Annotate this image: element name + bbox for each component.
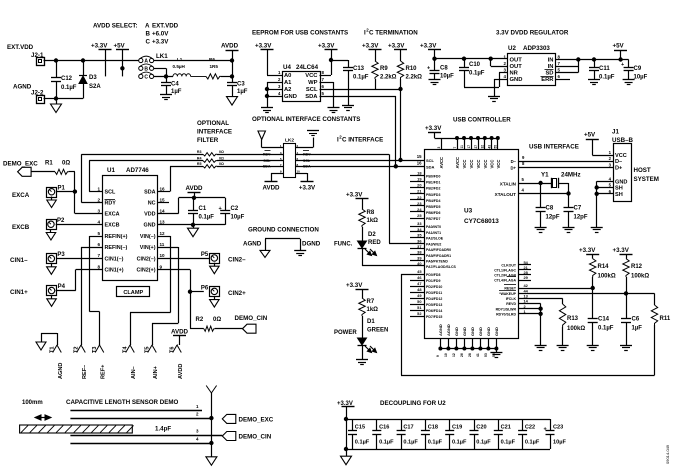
svg-text:100kΩ: 100kΩ [598, 274, 616, 280]
svg-text:AVDD: AVDD [171, 329, 189, 336]
svg-text:100kΩ: 100kΩ [631, 274, 649, 280]
svg-text:B: B [146, 31, 151, 38]
svg-text:GROUND CONNECTION: GROUND CONNECTION [248, 227, 319, 234]
svg-text:R3: R3 [197, 150, 202, 154]
svg-text:CIN1(+): CIN1(+) [105, 268, 124, 274]
svg-text:2.2kΩ: 2.2kΩ [406, 75, 423, 81]
svg-text:+: + [427, 66, 430, 72]
svg-text:12pF: 12pF [574, 215, 588, 221]
svg-text:P4: P4 [58, 284, 66, 290]
svg-text:J1: J1 [612, 129, 619, 136]
svg-text:4: 4 [97, 219, 100, 224]
svg-text:C14: C14 [598, 317, 610, 323]
svg-text:37: 37 [417, 244, 421, 249]
svg-text:GND: GND [284, 94, 297, 100]
svg-text:+5V: +5V [584, 132, 596, 139]
svg-text:C8: C8 [546, 206, 554, 212]
svg-text:RDY0/SLRD: RDY0/SLRD [496, 313, 516, 317]
svg-text:+6.0V: +6.0V [152, 31, 169, 38]
svg-text:AIN+: AIN+ [153, 365, 159, 379]
svg-text:CY7C68013: CY7C68013 [464, 218, 499, 225]
svg-text:D2: D2 [368, 232, 376, 238]
svg-text:R12: R12 [631, 264, 643, 270]
svg-text:12: 12 [160, 231, 166, 236]
svg-text:OPTIONAL INTERFACE CONSTANTS: OPTIONAL INTERFACE CONSTANTS [252, 116, 360, 123]
svg-text:24MHz: 24MHz [561, 172, 581, 179]
svg-text:+: + [219, 206, 222, 212]
svg-text:AVDD SELECT:: AVDD SELECT: [93, 23, 138, 30]
svg-text:C6: C6 [632, 317, 640, 323]
svg-text:POWER: POWER [334, 330, 357, 336]
svg-text:C13: C13 [353, 66, 365, 72]
svg-text:1µF: 1µF [237, 89, 248, 95]
svg-text:CTL4/FLAGA: CTL4/FLAGA [494, 279, 516, 283]
svg-text:C12: C12 [61, 76, 73, 82]
svg-text:C7: C7 [574, 206, 582, 212]
svg-text:VCC: VCC [305, 73, 318, 79]
svg-text:0.1µF: 0.1µF [403, 440, 418, 446]
svg-text:9: 9 [436, 355, 440, 357]
svg-text:100mm: 100mm [22, 400, 43, 406]
svg-text:ERR: ERR [541, 77, 554, 83]
svg-text:GND: GND [462, 327, 467, 336]
svg-text:0Ω: 0Ω [219, 156, 224, 160]
svg-text:0.1µF: 0.1µF [599, 75, 615, 81]
svg-text:FILTER: FILTER [197, 137, 219, 144]
svg-text:SDA: SDA [263, 165, 271, 169]
svg-text:0.1µF: 0.1µF [353, 75, 369, 81]
svg-text:0.1µF: 0.1µF [61, 85, 77, 91]
svg-text:7: 7 [97, 253, 100, 258]
svg-text:*WAKEUP: *WAKEUP [499, 292, 516, 296]
svg-text:CIN1+: CIN1+ [10, 289, 28, 296]
svg-text:OPTIONAL: OPTIONAL [197, 120, 229, 127]
svg-text:R2: R2 [196, 317, 204, 323]
svg-text:0.1µF: 0.1µF [598, 326, 614, 332]
svg-text:PA3/WU2: PA3/WU2 [426, 242, 441, 246]
svg-text:ADP3303: ADP3303 [523, 45, 550, 52]
svg-text:14: 14 [160, 208, 166, 213]
svg-text:1kΩ: 1kΩ [367, 307, 379, 313]
svg-text:PB1/FD1: PB1/FD1 [426, 181, 440, 185]
svg-text:R8: R8 [367, 210, 375, 216]
svg-text:16: 16 [417, 160, 422, 165]
svg-text:D1: D1 [367, 319, 375, 325]
svg-text:CIN2(–): CIN2(–) [137, 257, 156, 263]
svg-text:P6: P6 [201, 285, 209, 291]
svg-text:C8: C8 [440, 66, 448, 72]
svg-text:R9: R9 [380, 66, 388, 72]
svg-text:FUNC.: FUNC. [334, 242, 353, 248]
svg-text:R14: R14 [598, 264, 610, 270]
svg-text:100kΩ: 100kΩ [567, 326, 585, 332]
svg-text:1kΩ: 1kΩ [367, 218, 379, 224]
svg-text:RDY: RDY [263, 153, 271, 157]
svg-text:VCC: VCC [483, 160, 488, 169]
svg-text:D+: D+ [615, 166, 623, 172]
svg-text:EXCA: EXCA [12, 192, 30, 199]
svg-text:R13: R13 [567, 316, 579, 322]
svg-text:REFIN(–): REFIN(–) [105, 245, 128, 251]
svg-text:P3: P3 [57, 252, 65, 258]
svg-text:AGND: AGND [243, 241, 262, 248]
svg-text:XTALOUT: XTALOUT [495, 192, 517, 197]
svg-text:1: 1 [97, 186, 100, 191]
svg-text:PD2/FD10: PD2/FD10 [426, 285, 442, 289]
svg-text:0Ω: 0Ω [219, 162, 224, 166]
svg-text:U1: U1 [107, 167, 115, 174]
svg-text:41: 41 [476, 353, 480, 357]
svg-text:+3.3V: +3.3V [388, 43, 405, 50]
svg-text:C16: C16 [379, 425, 389, 431]
svg-text:AVDD: AVDD [185, 185, 203, 192]
svg-text:12: 12 [452, 353, 456, 357]
svg-text:C18: C18 [428, 425, 438, 431]
svg-text:GND: GND [494, 327, 499, 336]
svg-text:28: 28 [468, 353, 472, 357]
svg-text:VCC: VCC [462, 160, 467, 169]
svg-text:09014-049: 09014-049 [665, 444, 670, 464]
svg-text:AVDD: AVDD [221, 43, 239, 50]
svg-text:R6: R6 [209, 57, 215, 62]
svg-text:GREEN: GREEN [367, 328, 388, 334]
svg-text:CIN2–: CIN2– [228, 257, 246, 264]
svg-text:WP: WP [308, 80, 317, 86]
svg-text:P1: P1 [58, 185, 66, 191]
svg-text:8: 8 [97, 264, 100, 269]
svg-text:0.1µF: 0.1µF [452, 440, 467, 446]
svg-text:+3.3V: +3.3V [255, 43, 272, 50]
svg-text:DEMO_EXC: DEMO_EXC [239, 416, 274, 423]
svg-text:IFCLK: IFCLK [506, 297, 517, 301]
svg-text:NC: NC [148, 201, 156, 207]
svg-text:CTL1/FLAGC: CTL1/FLAGC [494, 269, 516, 273]
svg-text:+3.3V: +3.3V [152, 39, 169, 46]
svg-text:U4: U4 [283, 64, 291, 71]
svg-text:A: A [145, 23, 150, 30]
svg-text:R4: R4 [197, 156, 202, 160]
svg-text:C1: C1 [199, 206, 207, 212]
svg-text:DEMO_CIN: DEMO_CIN [239, 434, 272, 441]
svg-text:SDA: SDA [144, 190, 155, 196]
svg-text:DEMO_CIN: DEMO_CIN [235, 315, 268, 322]
svg-text:PD6/FD14: PD6/FD14 [426, 309, 442, 313]
svg-text:GND: GND [478, 327, 483, 336]
svg-text:A2: A2 [284, 87, 291, 93]
svg-text:CIN2(+): CIN2(+) [136, 268, 155, 274]
svg-text:12pF: 12pF [546, 215, 560, 221]
svg-text:PA6/PKTEND: PA6/PKTEND [426, 260, 448, 264]
svg-text:10µF: 10µF [553, 440, 566, 446]
svg-text:VIN(–): VIN(–) [140, 234, 156, 240]
svg-text:Y1: Y1 [541, 172, 549, 179]
svg-text:PB6/FD6: PB6/FD6 [426, 211, 440, 215]
svg-text:5: 5 [97, 231, 100, 236]
svg-text:R7: R7 [367, 299, 375, 305]
svg-text:SYSTEM: SYSTEM [634, 176, 659, 183]
svg-text:PD4/FD12: PD4/FD12 [426, 297, 442, 301]
svg-text:CIN1–: CIN1– [10, 257, 28, 264]
svg-text:PB0/FD0: PB0/FD0 [426, 175, 440, 179]
svg-text:D–: D– [615, 159, 622, 165]
svg-text:AVCC: AVCC [439, 157, 444, 169]
svg-text:XTALIN: XTALIN [500, 181, 517, 186]
svg-text:55: 55 [494, 145, 498, 149]
svg-text:+5V: +5V [613, 43, 625, 50]
svg-text:C: C [144, 75, 148, 81]
svg-text:+3.3V: +3.3V [425, 125, 442, 132]
svg-text:A1: A1 [284, 80, 292, 86]
svg-text:SCL: SCL [303, 159, 311, 163]
svg-text:VCC: VCC [490, 160, 495, 169]
svg-text:REF–: REF– [82, 365, 88, 379]
svg-text:R11: R11 [660, 316, 671, 322]
svg-text:43: 43 [487, 145, 491, 149]
svg-text:C2: C2 [231, 206, 239, 212]
svg-text:PD1/FD9: PD1/FD9 [426, 279, 440, 283]
svg-text:SCL: SCL [306, 87, 318, 93]
svg-text:T6: T6 [170, 346, 176, 353]
svg-text:0.5µH: 0.5µH [173, 64, 186, 69]
svg-text:+: + [621, 62, 624, 68]
svg-text:1.4pF: 1.4pF [155, 426, 171, 433]
svg-text:U3: U3 [464, 208, 473, 215]
svg-text:PB2/FD2: PB2/FD2 [426, 187, 440, 191]
svg-text:REVD: REVD [506, 302, 516, 306]
svg-text:C3: C3 [237, 82, 245, 88]
svg-text:C9: C9 [634, 66, 642, 72]
svg-text:GND: GND [454, 327, 459, 336]
svg-text:AGND: AGND [438, 324, 443, 336]
svg-text:EXCB: EXCB [105, 223, 120, 229]
svg-text:GND: GND [486, 327, 491, 336]
svg-text:0Ω: 0Ω [219, 150, 224, 154]
svg-text:PA2/SLOE: PA2/SLOE [426, 237, 444, 241]
svg-text:AGND: AGND [58, 363, 64, 379]
svg-text:VDD: VDD [144, 212, 155, 218]
svg-text:PA4/FIFOADR0: PA4/FIFOADR0 [426, 248, 451, 252]
svg-text:EEPROM FOR USB CONSTANTS: EEPROM FOR USB CONSTANTS [252, 30, 348, 37]
svg-text:11: 11 [160, 242, 165, 247]
svg-text:T4: T4 [123, 346, 129, 353]
svg-text:T5: T5 [145, 346, 151, 353]
svg-text:PB3/FD3: PB3/FD3 [426, 193, 440, 197]
svg-text:32: 32 [481, 145, 485, 149]
svg-text:0.1µF: 0.1µF [379, 440, 394, 446]
svg-text:0.1µF: 0.1µF [525, 440, 540, 446]
svg-text:0Ω: 0Ω [62, 161, 70, 167]
svg-text:T3: T3 [92, 346, 98, 353]
svg-text:DGND: DGND [302, 241, 321, 248]
svg-text:+3.3V: +3.3V [91, 43, 108, 50]
svg-text:0.1µF: 0.1µF [199, 215, 215, 221]
svg-text:AD7746: AD7746 [126, 167, 149, 174]
svg-text:3: 3 [437, 147, 441, 149]
svg-text:+5V: +5V [114, 43, 126, 50]
svg-text:RED: RED [368, 240, 381, 246]
svg-text:GND: GND [470, 327, 475, 336]
svg-text:SCL: SCL [105, 190, 116, 196]
svg-text:C INTERFACE: C INTERFACE [342, 137, 383, 144]
svg-text:9: 9 [160, 264, 163, 269]
svg-text:R10: R10 [406, 66, 418, 72]
svg-text:AGND: AGND [446, 324, 451, 336]
svg-text:AGND: AGND [13, 84, 32, 91]
svg-text:15: 15 [160, 197, 166, 202]
svg-text:+3.3V: +3.3V [299, 185, 316, 192]
svg-text:AIN–: AIN– [131, 366, 137, 379]
svg-text:RDY: RDY [303, 153, 311, 157]
svg-text:IN: IN [548, 58, 554, 64]
svg-text:R5: R5 [197, 162, 202, 166]
svg-text:13: 13 [160, 219, 166, 224]
svg-text:SH: SH [615, 192, 623, 198]
svg-text:GND: GND [510, 77, 523, 83]
svg-text:+3.3V: +3.3V [318, 43, 335, 50]
svg-text:AVDD: AVDD [178, 364, 184, 379]
svg-text:+: + [544, 427, 547, 433]
svg-text:PA0/INT0: PA0/INT0 [426, 225, 441, 229]
svg-text:U2: U2 [508, 45, 516, 52]
svg-text:SH: SH [615, 186, 623, 192]
svg-text:+3.3V: +3.3V [346, 282, 363, 289]
svg-text:PA5/FIFOADR1: PA5/FIFOADR1 [426, 254, 451, 258]
svg-text:C15: C15 [355, 425, 365, 431]
svg-text:SCL: SCL [263, 159, 271, 163]
svg-text:EXCA: EXCA [105, 212, 120, 218]
svg-text:53: 53 [484, 353, 488, 357]
svg-text:2.2kΩ: 2.2kΩ [380, 75, 397, 81]
svg-text:3.3V DVDD REGULATOR: 3.3V DVDD REGULATOR [496, 30, 569, 37]
svg-text:15: 15 [417, 154, 422, 159]
svg-text:AVCC: AVCC [455, 157, 460, 169]
svg-text:VCC: VCC [469, 160, 474, 169]
svg-text:10µF: 10µF [440, 74, 454, 80]
svg-text:VCC: VCC [496, 160, 501, 169]
svg-text:PD5/FD13: PD5/FD13 [426, 303, 442, 307]
svg-text:REFIN(+): REFIN(+) [105, 234, 128, 240]
svg-text:REF+: REF+ [100, 364, 106, 379]
svg-text:11: 11 [460, 145, 464, 149]
svg-text:AVDD: AVDD [262, 185, 280, 192]
svg-text:PA7/FLAGD/SLCS: PA7/FLAGD/SLCS [426, 265, 457, 269]
svg-text:24LC64: 24LC64 [296, 64, 319, 71]
svg-text:0.1µF: 0.1µF [355, 440, 370, 446]
svg-text:+3.3V: +3.3V [613, 247, 630, 254]
svg-text:1µF: 1µF [632, 326, 643, 332]
svg-text:GND: GND [615, 180, 627, 186]
svg-text:C23: C23 [553, 425, 563, 431]
svg-text:PA1/INT1: PA1/INT1 [426, 231, 441, 235]
svg-text:USB CONTROLLER: USB CONTROLLER [453, 117, 511, 124]
svg-text:CIN1(–): CIN1(–) [105, 257, 124, 263]
svg-text:C10: C10 [469, 62, 481, 68]
svg-text:+3.3V: +3.3V [346, 192, 363, 199]
svg-text:S2A: S2A [89, 84, 101, 90]
svg-text:10µF: 10µF [634, 75, 648, 81]
svg-text:T1: T1 [50, 346, 56, 353]
svg-text:VIN(+): VIN(+) [140, 245, 156, 251]
svg-text:EXCB: EXCB [12, 224, 30, 231]
svg-text:PD3/FD11: PD3/FD11 [426, 291, 442, 295]
svg-text:SD: SD [545, 71, 553, 77]
svg-text:CIN2+: CIN2+ [228, 290, 246, 297]
svg-text:SCL: SCL [426, 158, 435, 163]
svg-text:1µF: 1µF [171, 89, 182, 95]
svg-text:+3.3V: +3.3V [362, 43, 379, 50]
svg-text:LK2: LK2 [285, 138, 294, 144]
svg-text:HOST: HOST [634, 167, 651, 174]
svg-text:USB INTERFACE: USB INTERFACE [529, 144, 579, 151]
svg-text:0.1µF: 0.1µF [469, 71, 485, 77]
svg-text:GND: GND [144, 223, 156, 229]
svg-text:D3: D3 [89, 75, 97, 81]
svg-text:D+: D+ [511, 165, 517, 170]
svg-text:PD7/FD15: PD7/FD15 [426, 315, 442, 319]
svg-text:EXT.VDD: EXT.VDD [152, 23, 179, 30]
svg-text:D–: D– [511, 159, 517, 164]
svg-text:SDA: SDA [303, 165, 311, 169]
svg-text:C4: C4 [171, 82, 179, 88]
svg-text:C21: C21 [501, 425, 511, 431]
svg-text:PB4/FD4: PB4/FD4 [426, 199, 440, 203]
svg-text:SDA: SDA [426, 164, 435, 169]
svg-text:6: 6 [97, 242, 100, 247]
svg-text:CTL2/FLAGB: CTL2/FLAGB [494, 274, 516, 278]
svg-text:A0: A0 [284, 73, 291, 79]
svg-text:0.1µF: 0.1µF [501, 440, 516, 446]
svg-text:NR: NR [510, 71, 519, 77]
svg-text:C: C [146, 39, 151, 46]
svg-text:J2-2: J2-2 [31, 90, 44, 97]
svg-text:7: 7 [453, 147, 457, 149]
svg-text:20: 20 [417, 183, 421, 188]
svg-text:27: 27 [474, 145, 478, 149]
svg-text:16: 16 [160, 186, 166, 191]
svg-text:OUT: OUT [510, 58, 523, 64]
svg-text:47: 47 [417, 281, 421, 286]
svg-text:OUT: OUT [510, 64, 523, 70]
svg-text:26: 26 [460, 353, 464, 357]
svg-text:B: B [144, 66, 148, 72]
svg-text:0.1µF: 0.1µF [476, 440, 491, 446]
svg-text:1R5: 1R5 [210, 64, 219, 69]
svg-text:C17: C17 [403, 425, 413, 431]
svg-text:+3.3V: +3.3V [420, 43, 437, 50]
svg-text:VCC: VCC [476, 160, 481, 169]
svg-text:50: 50 [417, 299, 421, 304]
svg-text:RDY1/SLWR: RDY1/SLWR [496, 307, 517, 311]
svg-text:10µF: 10µF [231, 215, 245, 221]
svg-text:2: 2 [97, 197, 100, 202]
svg-text:EXT.VDD: EXT.VDD [7, 44, 34, 51]
svg-text:L1: L1 [177, 57, 183, 62]
svg-text:C22: C22 [525, 425, 535, 431]
svg-text:P5: P5 [201, 252, 209, 258]
svg-text:DEMO_EXC: DEMO_EXC [3, 161, 38, 168]
svg-text:C TERMINATION: C TERMINATION [369, 30, 418, 37]
svg-text:17: 17 [467, 145, 471, 149]
svg-text:PD0/FD8: PD0/FD8 [426, 273, 440, 277]
svg-text:INTERFACE: INTERFACE [197, 129, 232, 136]
svg-text:CAPACITIVE LENGTH SENSOR DEMO: CAPACITIVE LENGTH SENSOR DEMO [66, 399, 178, 406]
svg-text:DECOUPLING FOR U2: DECOUPLING FOR U2 [380, 400, 446, 407]
svg-text:CLKOUT: CLKOUT [501, 263, 516, 267]
svg-text:CLAMP: CLAMP [123, 290, 143, 296]
svg-text:T2: T2 [74, 346, 80, 353]
svg-text:10: 10 [444, 353, 448, 357]
svg-text:C20: C20 [476, 425, 486, 431]
